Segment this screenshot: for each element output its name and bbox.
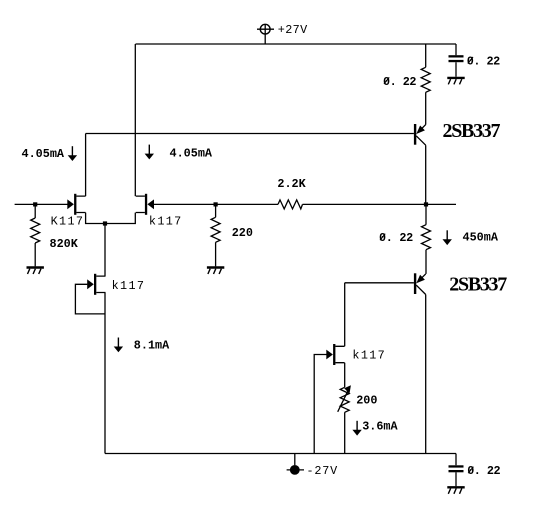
svg-text:820K: 820K bbox=[50, 237, 79, 251]
svg-text:+27V: +27V bbox=[278, 23, 308, 37]
svg-text:4.05mA: 4.05mA bbox=[170, 147, 213, 161]
svg-text:8.1mA: 8.1mA bbox=[134, 339, 170, 353]
svg-text:2SB337: 2SB337 bbox=[443, 120, 501, 142]
svg-text:2SB337: 2SB337 bbox=[449, 274, 507, 296]
svg-text:450mA: 450mA bbox=[463, 231, 499, 245]
svg-text:0. 22: 0. 22 bbox=[467, 464, 500, 478]
svg-text:200: 200 bbox=[356, 393, 377, 407]
svg-text:3.6mA: 3.6mA bbox=[362, 420, 398, 434]
svg-text:4.05mA: 4.05mA bbox=[22, 147, 65, 161]
svg-text:220: 220 bbox=[232, 226, 253, 240]
svg-text:0. 22: 0. 22 bbox=[467, 54, 500, 68]
svg-text:K117: K117 bbox=[51, 215, 85, 229]
svg-text:-27V: -27V bbox=[307, 464, 339, 478]
svg-text:k117: k117 bbox=[149, 215, 183, 229]
svg-text:2.2K: 2.2K bbox=[277, 177, 306, 191]
svg-text:k117: k117 bbox=[352, 349, 386, 363]
svg-text:k117: k117 bbox=[112, 279, 146, 293]
svg-text:0. 22: 0. 22 bbox=[379, 231, 413, 245]
svg-text:0. 22: 0. 22 bbox=[383, 75, 416, 89]
